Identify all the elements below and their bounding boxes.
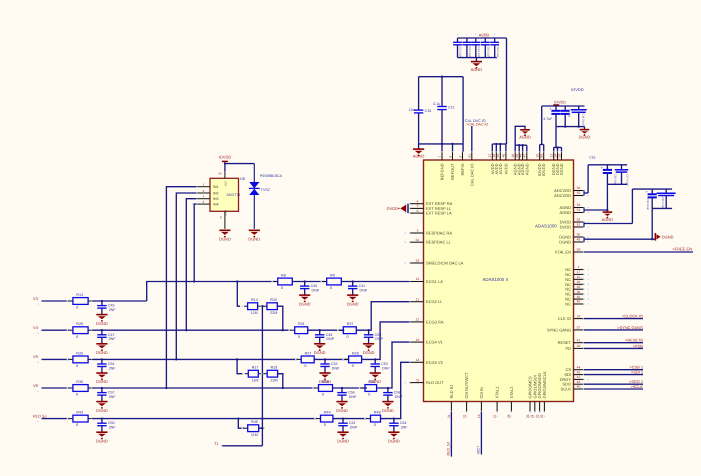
wire row V4 to ECG2 xyxy=(356,302,409,331)
svg-text:DNP: DNP xyxy=(349,395,357,399)
capacitor C60 2NF xyxy=(96,417,116,443)
svg-text:T1: T1 xyxy=(214,441,219,446)
diode TVS2 P6SMB6.8CA xyxy=(249,164,283,229)
svg-text:8: 8 xyxy=(448,156,452,158)
wire IOVDD caps bottom rail xyxy=(554,125,585,151)
svg-text:13: 13 xyxy=(416,277,420,281)
pin GND U6 bottom xyxy=(220,211,225,229)
svg-text:40: 40 xyxy=(577,385,581,389)
wire IN1 vertical bus xyxy=(165,187,196,389)
svg-text:DNP: DNP xyxy=(312,288,320,292)
svg-text:11: 11 xyxy=(416,297,420,301)
wire XTAL EN net FREE_EN xyxy=(584,247,693,252)
svg-text:AVDD: AVDD xyxy=(498,163,503,174)
wire IN4 vertical bus xyxy=(193,204,196,283)
svg-text:0.1u: 0.1u xyxy=(433,102,440,106)
svg-text:DNP: DNP xyxy=(327,337,335,341)
svg-text:IN3: IN3 xyxy=(213,197,219,201)
wire row V6 to ECG4 xyxy=(377,342,410,388)
svg-text:R31: R31 xyxy=(298,322,305,326)
wire DVDD pins to cap rail xyxy=(584,189,672,227)
wire row V5 mid xyxy=(92,358,298,360)
svg-text:22M: 22M xyxy=(270,311,277,315)
wire row RLD to R46 xyxy=(237,417,244,428)
wire row V3 step up to ECG1 feed xyxy=(147,282,276,302)
svg-text:EXT RESP LA: EXT RESP LA xyxy=(426,211,452,216)
wire WCT stub (CM IN) xyxy=(477,412,482,455)
svg-text:ECG4 V1: ECG4 V1 xyxy=(426,340,444,345)
svg-text:1: 1 xyxy=(578,265,580,269)
resistor R14 11M xyxy=(241,298,264,315)
pin ECG3 RA (12) left side xyxy=(405,318,444,325)
resistor R31 0 xyxy=(288,322,314,339)
pin RLD SJ (31) bottom side xyxy=(447,385,454,418)
svg-text:TVS2: TVS2 xyxy=(261,188,270,192)
pin SDI (45) right side xyxy=(564,370,589,377)
wire REFIN/REFOUT/REFGND reference node rails xyxy=(419,76,464,152)
pin NC (48) right side xyxy=(565,300,589,307)
pin GPIO1/MSDI (24) bottom side xyxy=(531,375,538,418)
pin NC (36) right side xyxy=(565,290,589,297)
wire net RESETB xyxy=(584,338,643,343)
svg-text:NC: NC xyxy=(565,302,571,307)
pin CAL DAC IO (61) top side xyxy=(468,147,475,187)
capacitor C56 DNP xyxy=(336,387,357,413)
svg-text:R44: R44 xyxy=(324,411,331,415)
resistor R26 0 xyxy=(67,351,95,368)
wire row V5 mid2 xyxy=(314,358,349,360)
capacitor C53 DNP xyxy=(369,358,390,384)
svg-text:15: 15 xyxy=(416,338,420,342)
svg-text:RLD SJ: RLD SJ xyxy=(449,385,454,399)
svg-text:IOVDD: IOVDD xyxy=(571,87,584,92)
svg-text:DGND: DGND xyxy=(336,408,348,413)
node V5 input label xyxy=(33,354,42,363)
resistor R8 0 xyxy=(271,274,298,291)
svg-text:11M: 11M xyxy=(251,433,258,437)
svg-text:49: 49 xyxy=(577,238,581,242)
capacitor C11 0.1uF xyxy=(433,102,454,109)
pin RESET (41) right side xyxy=(558,338,589,345)
capacitor C58 DNP xyxy=(382,387,403,413)
svg-text:CAL DAC IO: CAL DAC IO xyxy=(469,164,474,187)
svg-text:9: 9 xyxy=(458,156,462,158)
svg-text:ECG1 LA: ECG1 LA xyxy=(426,279,443,284)
svg-text:RLD_SJ: RLD_SJ xyxy=(447,442,451,456)
svg-text:R40: R40 xyxy=(368,380,375,384)
svg-text:4.7uF: 4.7uF xyxy=(543,117,552,121)
svg-text:DGND: DGND xyxy=(96,350,108,355)
pin REFOUT (8) top side xyxy=(448,147,455,180)
svg-text:R19: R19 xyxy=(271,366,278,370)
svg-text:75: 75 xyxy=(416,378,420,382)
pin AVDD (37) top side xyxy=(488,147,495,175)
svg-text:C16: C16 xyxy=(589,155,595,159)
svg-text:AVDD: AVDD xyxy=(503,163,508,174)
ground DGND (TVS2) xyxy=(248,230,260,241)
wire ADCVDD caps bottom rail to AGND xyxy=(584,184,627,212)
power IOVDD (U6) xyxy=(219,154,232,163)
capacitor C40 DNP xyxy=(299,280,320,306)
svg-text:60: 60 xyxy=(540,154,544,158)
svg-text:XTAL1: XTAL1 xyxy=(495,386,500,399)
svg-text:0: 0 xyxy=(76,393,78,397)
svg-text:CM IN: CM IN xyxy=(479,387,484,398)
svg-text:4: 4 xyxy=(417,199,419,203)
wire RLD_SJ stub xyxy=(447,412,452,457)
svg-text:DGND: DGND xyxy=(96,379,108,384)
svg-text:V6: V6 xyxy=(33,383,38,388)
svg-text:>SDI 1: >SDI 1 xyxy=(631,370,643,375)
capacitor C25 0.1uF xyxy=(657,189,676,209)
wire input row V5 xyxy=(42,358,70,360)
wire row RLD to ECG5 xyxy=(381,362,410,418)
pin RESPDAC LL (62) left side xyxy=(405,238,452,245)
svg-text:R48: R48 xyxy=(374,411,381,415)
wire R19 to row V6 xyxy=(278,374,284,389)
svg-text:0: 0 xyxy=(374,423,376,427)
wire IN3 vertical bus xyxy=(185,199,196,332)
svg-text:AGND: AGND xyxy=(602,217,614,222)
svg-text:31: 31 xyxy=(447,414,451,418)
svg-text:SYNC GANG: SYNC GANG xyxy=(547,327,571,332)
pin PD (39) right side xyxy=(565,344,589,351)
svg-text:>SCLK: >SCLK xyxy=(631,384,644,389)
svg-text:46: 46 xyxy=(502,154,506,158)
ground AGND (ADCVDD caps) xyxy=(602,212,614,222)
svg-text:IN4: IN4 xyxy=(213,203,219,207)
svg-text:C13: C13 xyxy=(568,113,571,118)
pin SDO (43) right side xyxy=(562,380,589,387)
svg-text:ECG5 V2: ECG5 V2 xyxy=(426,360,444,365)
svg-text:35: 35 xyxy=(577,285,581,289)
svg-text:18: 18 xyxy=(577,275,581,279)
svg-text:AGND: AGND xyxy=(413,154,425,159)
svg-text:ECG3 RA: ECG3 RA xyxy=(426,319,444,324)
resistor R13 0 xyxy=(67,293,95,310)
wire row V6 mid2 xyxy=(333,387,368,389)
svg-text:0: 0 xyxy=(298,335,300,339)
svg-text:0: 0 xyxy=(304,364,306,368)
capacitor C54 2NF xyxy=(96,358,116,384)
svg-text:0: 0 xyxy=(347,335,349,339)
svg-text:0: 0 xyxy=(76,423,78,427)
wire U6 VDD to TVS top xyxy=(224,163,254,172)
svg-text:DGND: DGND xyxy=(314,350,326,355)
svg-text:RLD SJ: RLD SJ xyxy=(33,413,46,418)
svg-text:DGND: DGND xyxy=(248,236,260,241)
resistor R48 0 xyxy=(364,411,387,428)
svg-text:WCT: WCT xyxy=(477,445,481,454)
svg-text:59: 59 xyxy=(557,154,561,158)
svg-text:P6SMB6.8CA: P6SMB6.8CA xyxy=(260,174,283,178)
capacitor C17 0.1uF xyxy=(615,165,629,187)
pin DGND (59) top side xyxy=(557,147,564,176)
svg-text:62: 62 xyxy=(416,238,420,242)
svg-text:ADAS1000: ADAS1000 xyxy=(535,223,557,228)
svg-text:2NF: 2NF xyxy=(109,366,117,370)
ground AGND (reference caps) xyxy=(413,144,425,159)
svg-text:R15: R15 xyxy=(270,298,277,302)
svg-text:7: 7 xyxy=(438,156,442,158)
svg-text:0: 0 xyxy=(76,335,78,339)
resistor R17 11M xyxy=(242,366,265,383)
resistor R19 22M xyxy=(261,366,284,383)
svg-text:DGND: DGND xyxy=(337,438,349,443)
pin IN3 U6 xyxy=(192,195,219,202)
pin GPIO2/MSDO (23) bottom side xyxy=(535,373,542,418)
resistor R44 0 xyxy=(314,411,339,428)
svg-text:DGND: DGND xyxy=(363,350,375,355)
wire row V3 mid xyxy=(92,300,147,302)
svg-text:>FREE EN: >FREE EN xyxy=(672,247,692,252)
svg-text:C3 0.1uF: C3 0.1uF xyxy=(468,47,471,58)
svg-text:AVDD: AVDD xyxy=(479,32,490,37)
svg-text:2NF: 2NF xyxy=(109,426,117,430)
pin REFGND (7) top side xyxy=(438,147,445,181)
capacitor C45 2NF xyxy=(96,300,116,326)
capacitor C52 DNP xyxy=(319,358,340,384)
svg-text:53: 53 xyxy=(577,208,581,212)
svg-text:DGND: DGND xyxy=(559,163,564,175)
pin VDD U6 top xyxy=(218,171,225,178)
pin SYNC GANG (57) right side xyxy=(547,326,589,333)
pin EXT RESP LL (5) left side xyxy=(405,204,452,211)
svg-text:2NF: 2NF xyxy=(401,426,409,430)
svg-text:R20: R20 xyxy=(76,322,83,326)
svg-text:SCLK: SCLK xyxy=(561,387,572,392)
svg-text:59: 59 xyxy=(577,248,581,252)
pin DGND (33) top side xyxy=(550,147,557,176)
svg-text:48: 48 xyxy=(577,300,581,304)
op-amp U2 ADAS1000 IC body xyxy=(424,160,574,402)
svg-text:R43: R43 xyxy=(76,411,83,415)
pin AGND (47) top side xyxy=(523,147,530,176)
svg-text:2NF: 2NF xyxy=(109,308,117,312)
svg-text:24: 24 xyxy=(531,414,535,418)
svg-text:C24 10uF: C24 10uF xyxy=(646,199,649,211)
svg-text:DGND: DGND xyxy=(559,240,571,245)
resistor R40 0 xyxy=(359,380,383,397)
resistor R9 0 xyxy=(320,274,347,291)
svg-text:0: 0 xyxy=(76,364,78,368)
pin DGND (34) top side xyxy=(553,147,560,176)
pin CM IN (19) bottom side xyxy=(477,387,484,418)
pin SCLK (40) right side xyxy=(561,385,589,392)
wire DVDD caps bottom rail to DGND port xyxy=(584,208,672,242)
wire ADCVDD pins to cap rail xyxy=(584,155,627,195)
pin DGND (49) right side xyxy=(559,238,589,245)
wire input row V3 xyxy=(42,300,70,302)
svg-text:DGND: DGND xyxy=(299,301,311,306)
svg-text:26: 26 xyxy=(577,280,581,284)
svg-text:28: 28 xyxy=(507,414,511,418)
wire row V4 mid xyxy=(92,329,291,331)
svg-text:22M: 22M xyxy=(270,378,277,382)
node V4 input label xyxy=(33,325,42,334)
capacitor C24 10uF (polarized) xyxy=(646,189,657,210)
pin AVDD (46) top side xyxy=(502,147,509,175)
pin CS (44) right side xyxy=(565,365,589,372)
power port DVDD (EXT RESP pins) xyxy=(387,204,408,213)
svg-text:ADG774: ADG774 xyxy=(227,193,241,197)
svg-text:DVDD: DVDD xyxy=(560,225,571,230)
resistor R30 0 xyxy=(67,380,95,397)
wire T1 net xyxy=(214,441,262,446)
svg-text:11M: 11M xyxy=(251,311,258,315)
svg-text:+: + xyxy=(549,107,551,111)
svg-text:R27: R27 xyxy=(305,351,312,355)
svg-text:R26: R26 xyxy=(76,351,83,355)
wire input row V4 xyxy=(42,329,70,331)
svg-text:3: 3 xyxy=(417,229,419,233)
pin NC (46) right side xyxy=(565,295,589,302)
svg-text:XTAL EN: XTAL EN xyxy=(555,250,571,255)
svg-text:29: 29 xyxy=(577,314,581,318)
wire row V4 mid2 xyxy=(308,329,345,331)
svg-text:C10: C10 xyxy=(425,109,432,113)
svg-text:ADCVDD: ADCVDD xyxy=(554,193,571,198)
svg-text:45: 45 xyxy=(577,370,581,374)
svg-text:DGND: DGND xyxy=(96,408,108,413)
pin IN4 U6 xyxy=(192,200,219,207)
capacitor C49 DNP xyxy=(314,329,335,355)
resistor R43 0 xyxy=(67,411,95,428)
svg-text:0: 0 xyxy=(368,393,370,397)
pin REFIN (9) top side xyxy=(458,147,465,176)
wire IN2 vertical bus xyxy=(175,193,196,361)
wire AGND pins bus xyxy=(515,126,527,151)
svg-text:5: 5 xyxy=(417,204,419,208)
pin AVDD (45) top side xyxy=(496,147,503,175)
svg-text:XTAL2: XTAL2 xyxy=(509,386,514,399)
pin DVDD (52) right side xyxy=(560,218,589,225)
capacitor C64 2NF xyxy=(388,417,408,443)
pin DVDD (51) right side xyxy=(560,223,589,230)
svg-text:ADAS1000 X: ADAS1000 X xyxy=(483,277,509,282)
wire net SYNC GANG xyxy=(584,325,643,330)
pin DGND (50) right side xyxy=(559,233,589,240)
pin AGND (53) right side xyxy=(559,208,589,215)
svg-text:DNP: DNP xyxy=(382,366,390,370)
svg-text:R28: R28 xyxy=(352,351,359,355)
svg-text:6: 6 xyxy=(417,209,419,213)
wire R14/R15 mid junction to guard bus xyxy=(261,305,263,446)
svg-text:36: 36 xyxy=(577,290,581,294)
ground AGND (top pins) xyxy=(519,130,531,140)
pin RESPDAC RA (3) left side xyxy=(405,229,453,236)
pin AGND (36) top side xyxy=(511,147,518,176)
svg-text:R46: R46 xyxy=(251,420,258,424)
node V6 input label xyxy=(33,383,42,392)
svg-text:0: 0 xyxy=(352,364,354,368)
wire row V3 to R14 xyxy=(236,280,240,306)
svg-text:23: 23 xyxy=(535,414,539,418)
resistor R38 0 xyxy=(312,380,339,397)
node CAL_DAC_IO with net label xyxy=(465,119,489,152)
svg-text:DGND: DGND xyxy=(579,134,591,139)
pin ECG4 V1 (15) left side xyxy=(405,338,444,345)
wire row RLD SJ mid xyxy=(92,418,317,420)
pin NC (1) right side xyxy=(565,265,589,272)
wire row V5 to ECG3 xyxy=(362,322,410,360)
svg-text:C5 0.1uF: C5 0.1uF xyxy=(487,47,490,58)
wire net CLOCK IO xyxy=(584,314,643,319)
svg-text:CLK IO: CLK IO xyxy=(558,316,571,321)
pin IOVDD (30) top side xyxy=(536,147,543,177)
svg-text:>CLOCK IO: >CLOCK IO xyxy=(622,314,643,319)
resistor R37 0 xyxy=(337,322,363,339)
pin SHIELD/CM DAC LA (63) left side xyxy=(405,259,464,266)
wire net SCLK xyxy=(584,384,643,389)
op-amp U6 ADG774 body xyxy=(210,176,246,216)
svg-text:CM OUT/WCT: CM OUT/WCT xyxy=(464,372,469,399)
svg-text:61: 61 xyxy=(468,154,472,158)
wire input row V6 xyxy=(42,387,70,389)
ground AGND (AVDD bypass caps) xyxy=(471,58,483,72)
svg-text:PD: PD xyxy=(565,346,571,351)
svg-text:GPIO3/MSCLK: GPIO3/MSCLK xyxy=(542,371,547,398)
pin NC (35) right side xyxy=(565,285,589,292)
resistor R28 0 xyxy=(342,351,368,368)
resistor R27 0 xyxy=(295,351,321,368)
wire row V5 to R17 xyxy=(236,358,243,373)
pin DRDY (42) right side xyxy=(560,375,589,382)
resistor R15 22M xyxy=(261,298,284,315)
svg-text:U6: U6 xyxy=(240,176,246,181)
wire ECG1 feed mid1 xyxy=(292,281,325,283)
svg-text:AGND: AGND xyxy=(519,135,531,140)
svg-text:R8: R8 xyxy=(281,274,286,278)
svg-text:14: 14 xyxy=(416,358,420,362)
svg-text:0: 0 xyxy=(76,306,78,310)
svg-text:C14 0.1uF: C14 0.1uF xyxy=(581,114,584,127)
svg-text:DVDD: DVDD xyxy=(387,206,398,211)
wire row RLD mid2 xyxy=(333,418,367,420)
svg-text:R37: R37 xyxy=(347,322,354,326)
svg-text:IN2: IN2 xyxy=(213,191,219,195)
pin GPIO3/MSCLK (22) bottom side xyxy=(540,371,547,418)
svg-text:IOVDD: IOVDD xyxy=(554,100,566,104)
resistor R46 11M xyxy=(241,420,265,437)
svg-text:RESPDAC RA: RESPDAC RA xyxy=(426,231,452,236)
wire R15 to row V4 xyxy=(277,306,284,331)
wire ECG1 feed mid2 xyxy=(341,281,409,283)
svg-text:RESET: RESET xyxy=(558,340,572,345)
ground DGND (U6) xyxy=(219,230,231,241)
svg-text:27: 27 xyxy=(493,414,497,418)
svg-text:IOVDD: IOVDD xyxy=(541,163,546,176)
pin IN2 U6 xyxy=(192,189,219,196)
pin RLD OUT (75) left side xyxy=(405,378,445,385)
svg-text:>RESETB: >RESETB xyxy=(625,338,643,343)
wire net SDO 1 xyxy=(584,379,643,384)
capacitor C57 2NF xyxy=(96,387,116,413)
pin ECG2 LL (11) left side xyxy=(405,297,444,304)
svg-text:DGND: DGND xyxy=(662,234,674,239)
svg-text:21: 21 xyxy=(462,414,466,418)
svg-text:IN1: IN1 xyxy=(213,185,219,189)
wire net SDI 1 xyxy=(584,370,643,375)
svg-text:42: 42 xyxy=(577,375,581,379)
svg-text:45: 45 xyxy=(496,154,500,158)
svg-text:R30: R30 xyxy=(76,380,83,384)
wire net CSB 1 xyxy=(584,365,643,370)
svg-text:52: 52 xyxy=(577,218,581,222)
capacitor C41 DNP xyxy=(347,280,368,306)
wire row V6 mid xyxy=(92,387,315,389)
capacitor C61 DNP xyxy=(337,417,358,443)
